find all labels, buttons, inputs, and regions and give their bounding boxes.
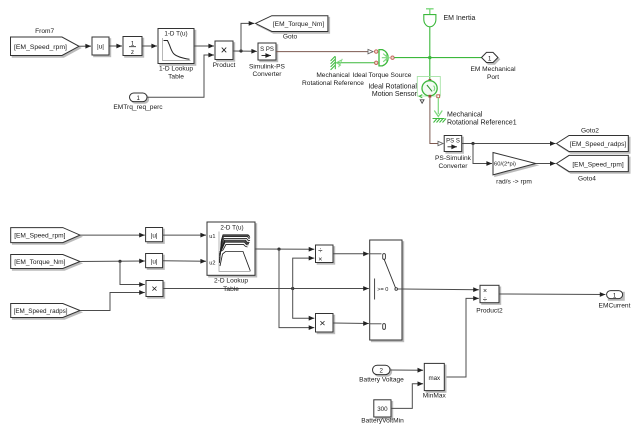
svg-text:EMCurrent: EMCurrent — [599, 303, 631, 310]
svg-text:Simulink-PS: Simulink-PS — [249, 64, 286, 71]
svg-text:Product2: Product2 — [476, 307, 503, 314]
svg-text:Mechanical: Mechanical — [447, 112, 483, 119]
svg-text:max: max — [428, 375, 441, 382]
svg-text:u1: u1 — [209, 234, 215, 240]
svg-text:z: z — [131, 49, 134, 56]
svg-text:BatteryVoltMin: BatteryVoltMin — [361, 417, 404, 424]
svg-text:Battery Voltage: Battery Voltage — [359, 377, 404, 384]
svg-text:[EM_Torque_Nm]: [EM_Torque_Nm] — [273, 21, 324, 28]
svg-text:From7: From7 — [35, 28, 54, 35]
svg-text:[EM_Speed_radps]: [EM_Speed_radps] — [570, 141, 627, 148]
svg-text:Ideal Torque Source: Ideal Torque Source — [353, 72, 412, 79]
svg-text:[EM_Speed_radps]: [EM_Speed_radps] — [14, 308, 68, 315]
svg-text:2-D Lookup: 2-D Lookup — [214, 277, 248, 284]
svg-text:×: × — [151, 283, 157, 295]
svg-text:Mechanical: Mechanical — [316, 72, 350, 79]
svg-text:300: 300 — [377, 406, 388, 413]
svg-text:MinMax: MinMax — [423, 393, 447, 400]
svg-text:1: 1 — [613, 292, 617, 299]
svg-text:EM Inertia: EM Inertia — [444, 15, 476, 22]
svg-text:Converter: Converter — [439, 163, 469, 170]
svg-text:rad/s -> rpm: rad/s -> rpm — [496, 179, 532, 186]
svg-text:PS S: PS S — [446, 138, 460, 144]
svg-text:Ideal Rotational: Ideal Rotational — [368, 83, 417, 90]
svg-text:Rotational Reference: Rotational Reference — [302, 80, 364, 87]
svg-text:PS-Simulink: PS-Simulink — [435, 155, 472, 162]
svg-text:Motion Sensor: Motion Sensor — [372, 91, 418, 98]
svg-text:Goto: Goto — [283, 34, 298, 41]
svg-text:1: 1 — [136, 95, 140, 102]
svg-text:Rotational Reference1: Rotational Reference1 — [447, 120, 517, 127]
svg-text:[EM_Torque_Nm]: [EM_Torque_Nm] — [14, 259, 65, 266]
svg-text:Table: Table — [168, 74, 184, 81]
svg-text:60/(2*pi): 60/(2*pi) — [494, 162, 516, 168]
svg-text:÷: ÷ — [318, 246, 323, 255]
svg-text:×: × — [319, 317, 325, 329]
svg-text:[EM_Speed_rpm]: [EM_Speed_rpm] — [14, 233, 65, 240]
svg-text:[EM_Speed_rpm]: [EM_Speed_rpm] — [572, 161, 623, 168]
svg-text:|u|: |u| — [97, 44, 104, 51]
svg-text:1: 1 — [488, 55, 492, 62]
svg-text:Goto4: Goto4 — [578, 176, 596, 183]
svg-text:2-D T(u): 2-D T(u) — [220, 225, 243, 232]
svg-text:Converter: Converter — [253, 71, 283, 78]
svg-text:Port: Port — [487, 74, 499, 81]
svg-text:Product: Product — [213, 62, 236, 69]
svg-text:EM Mechanical: EM Mechanical — [470, 66, 516, 73]
svg-text:×: × — [221, 45, 228, 57]
svg-text:Goto2: Goto2 — [581, 128, 599, 135]
svg-text:÷: ÷ — [483, 295, 488, 304]
svg-text:×: × — [318, 257, 322, 264]
svg-text:2: 2 — [379, 368, 383, 375]
svg-text:S PS: S PS — [260, 47, 274, 53]
svg-text:|u|: |u| — [151, 232, 158, 239]
svg-text:[EM_Speed_rpm]: [EM_Speed_rpm] — [14, 44, 67, 51]
svg-text:|u|: |u| — [151, 258, 158, 265]
svg-text:1-D T(u): 1-D T(u) — [164, 31, 187, 38]
svg-text:Table: Table — [223, 286, 239, 293]
svg-text:>= 0: >= 0 — [377, 287, 388, 293]
svg-text:EMTrq_req_perc: EMTrq_req_perc — [113, 104, 163, 111]
svg-text:1-D Lookup: 1-D Lookup — [159, 66, 193, 73]
svg-text:u2: u2 — [209, 261, 215, 267]
